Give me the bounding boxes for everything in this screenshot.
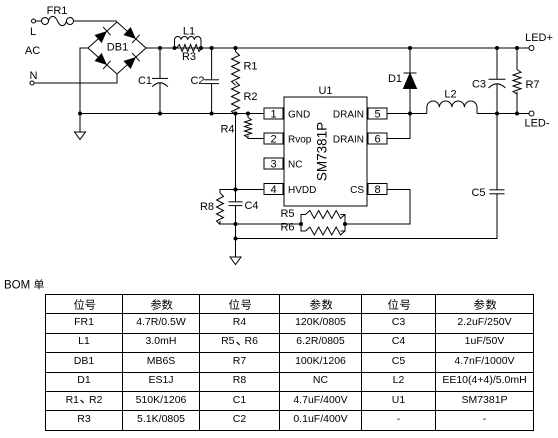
wire top rail VCC xyxy=(146,47,529,49)
node HVDD junction xyxy=(234,188,238,192)
resistor R5 xyxy=(280,208,345,224)
svg-text:Rvop: Rvop xyxy=(288,135,312,146)
IC U1 SM7381P xyxy=(264,85,387,206)
resistor R6 xyxy=(280,222,345,236)
inductor L2 xyxy=(410,89,529,114)
wire pin6 xyxy=(387,114,410,139)
resistor R2 xyxy=(232,82,258,116)
svg-text:LED+: LED+ xyxy=(525,32,553,44)
node drain junction xyxy=(408,112,412,116)
resistor R8 xyxy=(200,190,236,225)
svg-text:D1: D1 xyxy=(388,73,402,85)
ground xyxy=(75,132,86,140)
resistor R4 xyxy=(220,112,264,139)
wire R8 node to R5/R6 xyxy=(236,223,302,225)
inductor L1 xyxy=(173,26,204,51)
svg-text:C4: C4 xyxy=(244,200,258,212)
wire ground drop xyxy=(235,114,237,202)
svg-text:R3: R3 xyxy=(182,51,196,63)
resistor R7 xyxy=(513,46,540,116)
svg-text:R2: R2 xyxy=(243,91,257,103)
svg-text:C3: C3 xyxy=(472,79,486,91)
resistor R1 xyxy=(232,46,258,85)
node junction dot bridge-minus xyxy=(78,112,82,116)
wire FR1 to bridge top xyxy=(74,20,118,22)
svg-text:U1: U1 xyxy=(318,85,332,97)
wire pin4 xyxy=(236,189,265,191)
svg-text:FR1: FR1 xyxy=(47,5,68,17)
node R5R6 left xyxy=(299,222,303,226)
svg-text:DRAIN: DRAIN xyxy=(333,135,364,146)
node N terminal xyxy=(30,70,38,85)
svg-text:L2: L2 xyxy=(444,89,456,101)
svg-text:DRAIN: DRAIN xyxy=(333,110,364,121)
svg-text:R7: R7 xyxy=(525,79,539,91)
svg-text:N: N xyxy=(30,70,38,82)
node CS net junction xyxy=(234,222,238,226)
svg-text:C2: C2 xyxy=(190,75,204,87)
wire ground rail xyxy=(80,113,264,115)
svg-text:L: L xyxy=(30,26,36,38)
node L terminal xyxy=(30,19,36,38)
svg-text:C5: C5 xyxy=(471,187,485,199)
svg-text:C1: C1 xyxy=(138,75,152,87)
svg-text:LED-: LED- xyxy=(524,118,549,130)
wire N to bridge bottom xyxy=(34,74,117,83)
capacitor C3 xyxy=(472,46,506,116)
BOM title xyxy=(4,279,44,292)
wire pin5 xyxy=(387,113,410,115)
svg-text:4: 4 xyxy=(270,184,276,196)
bridge rectifier DB1 xyxy=(88,22,146,74)
svg-text:R8: R8 xyxy=(200,201,214,213)
svg-text:DB1: DB1 xyxy=(107,42,128,54)
capacitor C1 xyxy=(138,46,168,116)
node LED+ terminal xyxy=(525,32,553,51)
svg-text:R6: R6 xyxy=(280,222,294,234)
resistor R3 xyxy=(177,45,202,64)
BOM table xyxy=(45,294,534,431)
svg-text:HVDD: HVDD xyxy=(288,185,316,196)
svg-text:R5: R5 xyxy=(280,208,294,220)
svg-text:2: 2 xyxy=(270,134,276,146)
capacitor C4 xyxy=(229,200,259,257)
svg-text:R1: R1 xyxy=(243,61,257,73)
svg-text:L1: L1 xyxy=(183,26,195,38)
svg-text:GND: GND xyxy=(288,110,310,121)
node R5R6 right xyxy=(343,222,347,226)
wire L to FR1 xyxy=(36,20,42,22)
svg-text:CS: CS xyxy=(350,185,364,196)
diode D1 xyxy=(388,46,417,114)
capacitor C5 xyxy=(236,114,505,239)
wire bridge left to ground xyxy=(80,48,88,132)
svg-text:R4: R4 xyxy=(220,124,234,136)
node LED- terminal xyxy=(524,111,549,130)
svg-text:6: 6 xyxy=(374,134,380,146)
svg-text:3: 3 xyxy=(270,159,276,171)
wire CS to R5R6 xyxy=(345,190,410,225)
svg-text:AC: AC xyxy=(25,45,40,57)
svg-text:1: 1 xyxy=(270,109,276,121)
node bottom rail junction xyxy=(234,237,238,241)
capacitor C2 xyxy=(190,46,219,116)
svg-text:8: 8 xyxy=(374,184,380,196)
fuse resistor FR1 xyxy=(42,5,74,26)
svg-text:5: 5 xyxy=(374,109,380,121)
ground 2 xyxy=(230,257,241,265)
svg-text:SM7381P: SM7381P xyxy=(315,122,330,181)
svg-text:NC: NC xyxy=(288,160,302,171)
